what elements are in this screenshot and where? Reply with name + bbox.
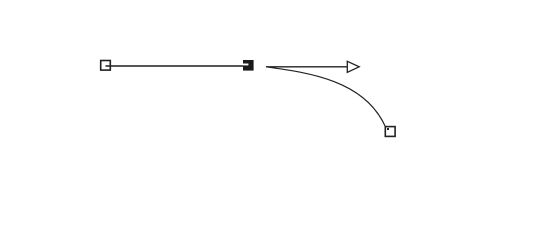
- node A (open square handle, left end): [101, 61, 111, 71]
- dot inside curve-end handle: [387, 128, 389, 130]
- wire (line from left handle to black handle): [106, 65, 244, 67]
- white notch inside filled handle: [243, 64, 249, 66]
- wire (arrow shaft): [266, 66, 347, 68]
- node C (open square handle, curve end): [385, 127, 395, 137]
- wire (bezier curve): [266, 67, 385, 126]
- arrowhead (open triangle): [347, 61, 359, 72]
- node B (filled square handle, right end of line): [243, 60, 254, 71]
